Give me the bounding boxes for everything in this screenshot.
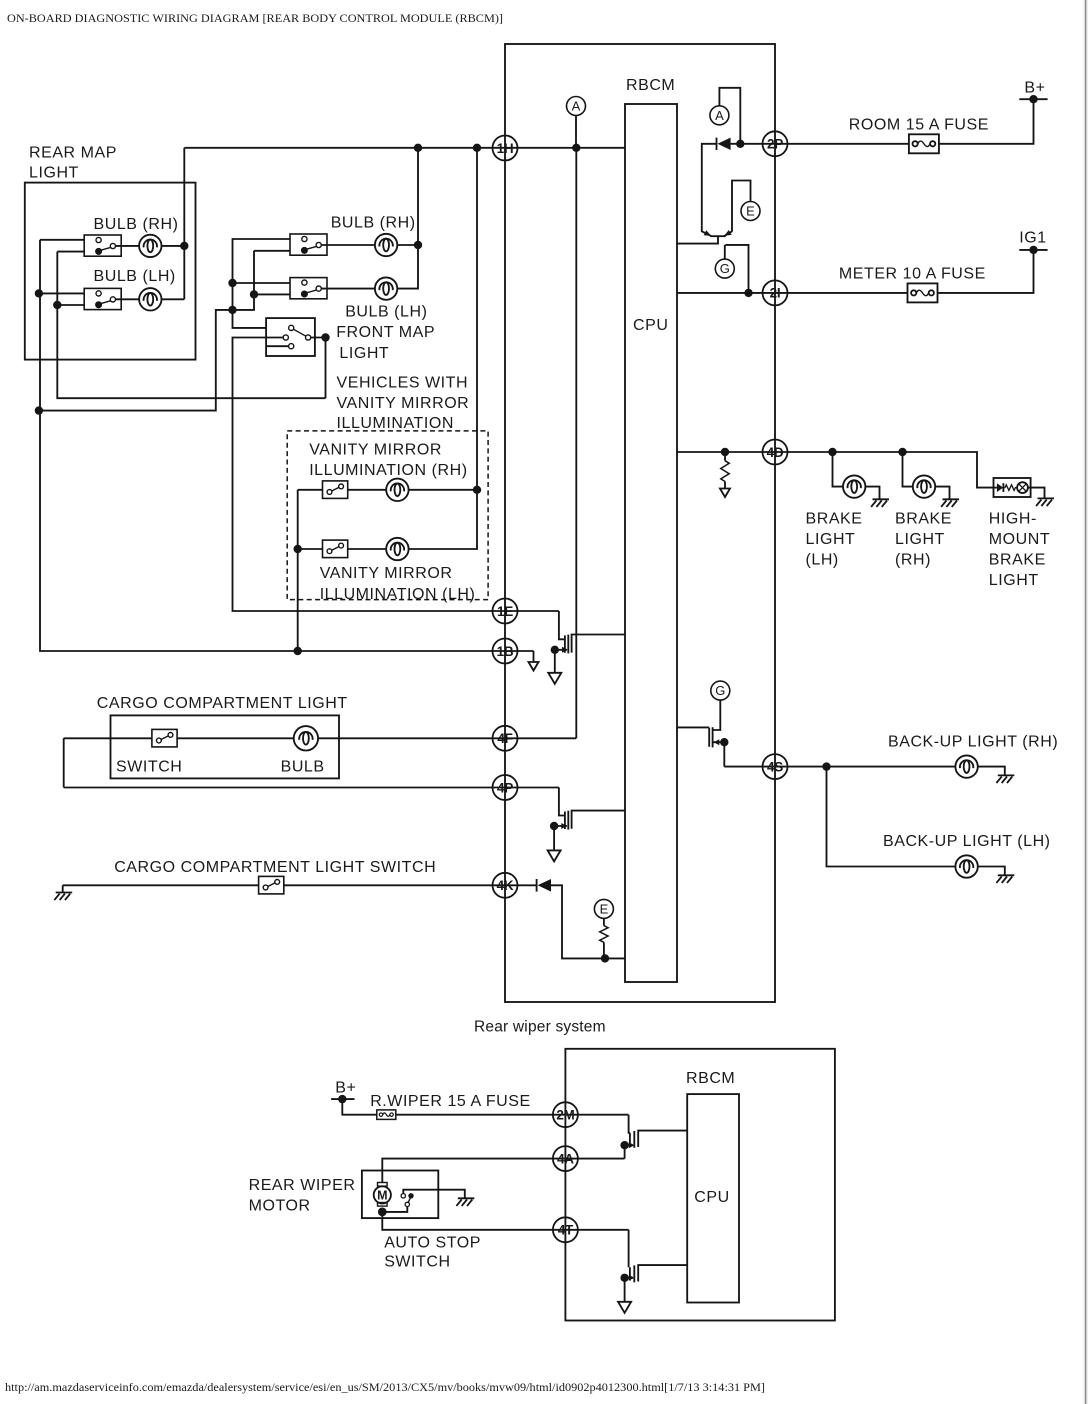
wire front LH bulb row [321,148,418,289]
mosfet wiper1 gate plate [629,1133,631,1146]
ground triangle wiper2 [618,1302,631,1313]
mosfet wiper2 gate plate [629,1267,631,1280]
junction 4S source [720,738,728,746]
circle G hook [715,259,734,278]
mosfet wiper2 channel [633,1265,635,1282]
svg-text:REAR WIPER: REAR WIPER [249,1177,356,1194]
junction 1H-A [572,144,580,152]
ground triangle 1E [548,673,561,684]
circle E hook [741,202,760,221]
switch rear map RH [84,235,121,256]
junction brake RH [898,448,906,456]
svg-text:IG1: IG1 [1019,230,1046,247]
vanity dashed box [287,431,488,600]
mosfet 4P drain [572,811,625,829]
svg-text:A: A [572,99,581,114]
svg-text:BULB (RH): BULB (RH) [94,216,179,233]
svg-text:VANITY MIRROR: VANITY MIRROR [337,395,470,412]
wire A drop [575,116,577,148]
wire 4D branch [677,452,994,488]
connector 4A [553,1146,578,1171]
switch cargo [152,729,177,747]
wire 1E gate feed [559,611,565,639]
connector 1B [493,639,518,664]
bulb rear map RH [139,235,161,257]
mosfet 1E drain [572,635,625,653]
wire high-mount ground [1028,488,1045,498]
circle G internal [711,681,730,700]
wire 1B stub [533,651,535,662]
connector 1E [493,599,518,624]
wire motor to 4T [382,1212,628,1230]
ground auto stop [456,1198,474,1206]
wire meter fuse [677,250,1034,293]
wire cross link [39,251,254,411]
svg-text:CPU: CPU [633,317,668,334]
bulb cargo [294,726,318,750]
svg-text:ILLUMINATION (LH): ILLUMINATION (LH) [320,586,476,603]
circle A hook [710,106,729,125]
junction A1 [35,289,43,297]
bulb backup RH [955,755,977,777]
svg-text:CARGO COMPARTMENT LIGHT: CARGO COMPARTMENT LIGHT [97,695,348,712]
rear wiper motor box [362,1171,438,1219]
wire rear LH switch feeds [40,293,96,305]
wire rear RH switch feeds [40,240,96,252]
wire cargo row [64,737,577,739]
wire brake LH [833,452,880,499]
switch front map LH [290,278,327,299]
svg-text:1B: 1B [497,644,514,659]
junction E resistor [601,954,609,962]
junction 4P source [550,822,558,830]
svg-text:CARGO COMPARTMENT LIGHT SWITCH: CARGO COMPARTMENT LIGHT SWITCH [114,859,436,876]
ground triangle 4D [720,489,730,498]
svg-text:RBCM: RBCM [686,1070,735,1087]
svg-text:(RH): (RH) [895,551,931,568]
svg-text:RBCM: RBCM [626,77,675,94]
wire front RH feeds [233,239,302,328]
junction front TL [228,279,236,287]
svg-text:ILLUMINATION (RH): ILLUMINATION (RH) [309,462,467,479]
svg-text:LIGHT: LIGHT [989,572,1039,589]
junction cross [250,290,258,298]
high-mount brake light box [994,478,1031,497]
svg-text:Rear wiper system: Rear wiper system [474,1018,606,1035]
wire backup LH [827,767,1005,875]
ground high-mount [1036,498,1054,506]
svg-text:BRAKE: BRAKE [989,551,1046,568]
svg-text:1E: 1E [497,604,513,619]
wire 4P gate feed [559,788,565,816]
svg-text:AUTO STOP: AUTO STOP [384,1235,481,1252]
mosfet wiper1 source [625,1144,633,1146]
ground backup LH [996,875,1014,883]
svg-text:A: A [715,108,724,123]
mosfet wiper2 drain [638,1265,687,1281]
svg-text:E: E [746,204,755,219]
mosfet 4S gate [677,727,709,746]
wire vanity feed [409,148,477,549]
connector 2I [763,280,788,305]
bulb brake LH [843,475,865,497]
connector 2M [553,1102,578,1127]
wire rear LH bulb row [116,298,185,300]
resistor E low [603,918,605,925]
svg-text:VEHICLES WITH: VEHICLES WITH [337,375,469,392]
svg-text:BULB (LH): BULB (LH) [345,303,427,320]
junction 4D resistor [721,448,729,456]
junction vanity LH [294,545,302,553]
switch front map RH [290,234,327,255]
CPU box 2 [687,1094,739,1302]
mosfet wiper1 drain [638,1131,687,1147]
circle A internal [567,97,586,116]
switch rear map LH [84,288,121,309]
wire G hook [725,245,749,293]
wire 1H feed [184,148,625,299]
wire A hook [719,88,740,144]
svg-text:BULB: BULB [281,758,325,775]
wire front map bottom stub [266,345,289,347]
junction motor bottom [378,1208,387,1217]
junction A2 [35,406,43,414]
wire front LH bottom feed [254,293,302,295]
wire 4K diode branch [551,885,625,958]
mosfet 4P gate plate [564,812,566,830]
ground 4K [54,893,72,901]
scrollbar right [1083,0,1088,1404]
connector 4K [493,873,518,898]
junction 1H line a [414,144,422,152]
junction front RH bulb [414,241,422,249]
svg-text:BRAKE: BRAKE [806,510,863,527]
junction front map out [321,333,329,341]
terminal IG1 [1019,249,1047,251]
junction wiper1 source [620,1141,628,1149]
svg-text:BACK-UP LIGHT (LH): BACK-UP LIGHT (LH) [883,833,1051,850]
svg-text:HIGH-: HIGH- [989,510,1037,527]
terminal B+ [1019,98,1047,100]
wire front RH bulb row [321,244,418,246]
bulb brake RH [913,475,935,497]
wire 4S branch [724,767,1005,775]
transistor Q1 [677,226,732,244]
mosfet wiper2 source [625,1277,633,1279]
wire front LH top feed [233,282,302,284]
svg-text:http://am.mazdaserviceinfo.com: http://am.mazdaserviceinfo.com/emazda/de… [5,1382,765,1394]
junction 1H line b [473,144,481,152]
svg-text:ROOM 15 A FUSE: ROOM 15 A FUSE [849,116,989,133]
connector 4T [553,1217,578,1242]
auto stop switch [382,1207,407,1212]
wire vanity left leg [297,490,299,651]
connector 1H [493,136,518,161]
wire 4K row [63,885,537,892]
connector 4F [493,726,518,751]
wire brake RH [903,452,950,499]
wire vanity RH row [298,489,477,491]
mosfet 4P channel [567,811,569,830]
bulb front map LH [375,277,397,299]
wire front map mid to 1E [233,338,559,612]
svg-text:METER 10 A FUSE: METER 10 A FUSE [839,266,986,283]
high-mount LED [994,487,997,489]
bulb rear map LH [139,288,161,310]
wire 4P loop [64,738,559,787]
svg-text:B+: B+ [335,1080,356,1097]
svg-text:M: M [377,1189,387,1203]
wire vanity LH row [298,548,387,550]
circle E internal low [594,899,613,918]
ground brake RH [941,499,959,507]
junction 2I [744,289,752,297]
ground brake LH [871,499,889,507]
fuse R.WIPER 15A [377,1110,396,1120]
svg-text:ON-BOARD DIAGNOSTIC WIRING DIA: ON-BOARD DIAGNOSTIC WIRING DIAGRAM [REAR… [7,11,503,25]
switch 4K line [259,876,284,894]
connector 4D [763,440,788,465]
junction backup [822,762,830,770]
wire left common B [57,252,325,399]
terminal B+ wiper [331,1098,354,1100]
ground triangle 4P [548,850,561,861]
junction 2P diode [736,140,744,148]
mosfet 4P source [554,826,567,850]
wire left common A [40,240,534,651]
svg-text:SWITCH: SWITCH [116,758,182,775]
wire front map output [311,338,326,399]
connector 4S [763,754,788,779]
connector 2P [763,131,788,156]
svg-text:G: G [715,683,725,698]
svg-text:VANITY MIRROR: VANITY MIRROR [309,441,442,458]
junction B1 [53,301,61,309]
svg-text:G: G [720,261,730,276]
svg-text:LIGHT: LIGHT [29,165,79,182]
switch vanity LH [323,540,348,558]
svg-text:CPU: CPU [694,1189,729,1206]
wire wiper fuse row [342,1099,628,1115]
switch vanity RH [323,481,348,499]
diode 2P [716,138,718,150]
svg-text:MOUNT: MOUNT [989,531,1050,548]
fuse METER 10A [908,283,938,302]
RBCM module box 2 [565,1049,835,1321]
svg-text:B+: B+ [1024,80,1045,97]
connector 4P [493,775,518,800]
mosfet 1E gate plate [564,635,566,652]
bulb vanity LH [386,538,408,560]
rear map light box [25,183,196,360]
ground backup RH [996,775,1014,783]
cargo light box [111,715,340,778]
wire 4F riser [575,148,577,739]
bulb vanity RH [386,479,408,501]
junction 1B line [294,647,302,655]
svg-text:LIGHT: LIGHT [895,531,945,548]
wire 4T gate feed [628,1230,630,1268]
svg-text:LIGHT: LIGHT [339,345,389,362]
svg-text:(LH): (LH) [806,551,839,568]
mosfet 4S source [713,742,725,766]
junction 1E source [551,646,559,654]
mosfet wiper1 channel [633,1131,635,1148]
svg-text:BRAKE: BRAKE [895,510,952,527]
junction vanity RH [473,486,481,494]
front map light switch box [266,318,315,356]
RBCM module box [505,44,775,1002]
wire 4A to motor [382,1159,624,1183]
wire 2P internal [702,144,717,226]
mosfet 4S channel [712,727,714,747]
svg-text:2M: 2M [556,1108,574,1123]
junction rear RH bulb [180,242,188,250]
front map light switch contacts [283,325,311,349]
svg-text:1H: 1H [497,141,514,156]
bulb front map RH [375,234,397,256]
svg-text:REAR MAP: REAR MAP [29,145,117,162]
wire rear RH bulb row [116,245,185,247]
svg-text:VANITY MIRROR: VANITY MIRROR [320,565,453,582]
svg-text:E: E [600,902,609,917]
wire 4A feed [624,1145,626,1158]
junction brake LH [828,448,836,456]
fuse ROOM 15A [909,134,939,153]
svg-text:FRONT MAP: FRONT MAP [336,324,435,341]
junction wiper2 source [620,1274,628,1282]
svg-text:BACK-UP LIGHT (RH): BACK-UP LIGHT (RH) [888,734,1058,751]
svg-text:BULB (LH): BULB (LH) [94,268,176,285]
mosfet 1E source [555,650,567,673]
ground triangle 1B [529,662,539,671]
motor M [374,1183,391,1207]
svg-text:LIGHT: LIGHT [806,531,856,548]
junction front mid [228,306,236,314]
wire 2M gate feed [629,1115,630,1133]
svg-text:R.WIPER 15 A FUSE: R.WIPER 15 A FUSE [370,1093,531,1110]
diode 4K [536,879,538,892]
svg-text:MOTOR: MOTOR [249,1197,311,1214]
mosfet 1E channel [567,635,569,654]
wire E hook [732,181,751,232]
CPU box [625,104,677,982]
wire room fuse [731,99,1034,144]
svg-text:BULB (RH): BULB (RH) [331,214,416,231]
wire wiper2 ground [624,1278,626,1302]
wire G drop [713,700,721,730]
resistor 4D [724,452,726,461]
svg-text:SWITCH: SWITCH [384,1254,450,1271]
svg-text:ILLUMINATION: ILLUMINATION [337,415,454,432]
bulb backup LH [955,855,977,877]
